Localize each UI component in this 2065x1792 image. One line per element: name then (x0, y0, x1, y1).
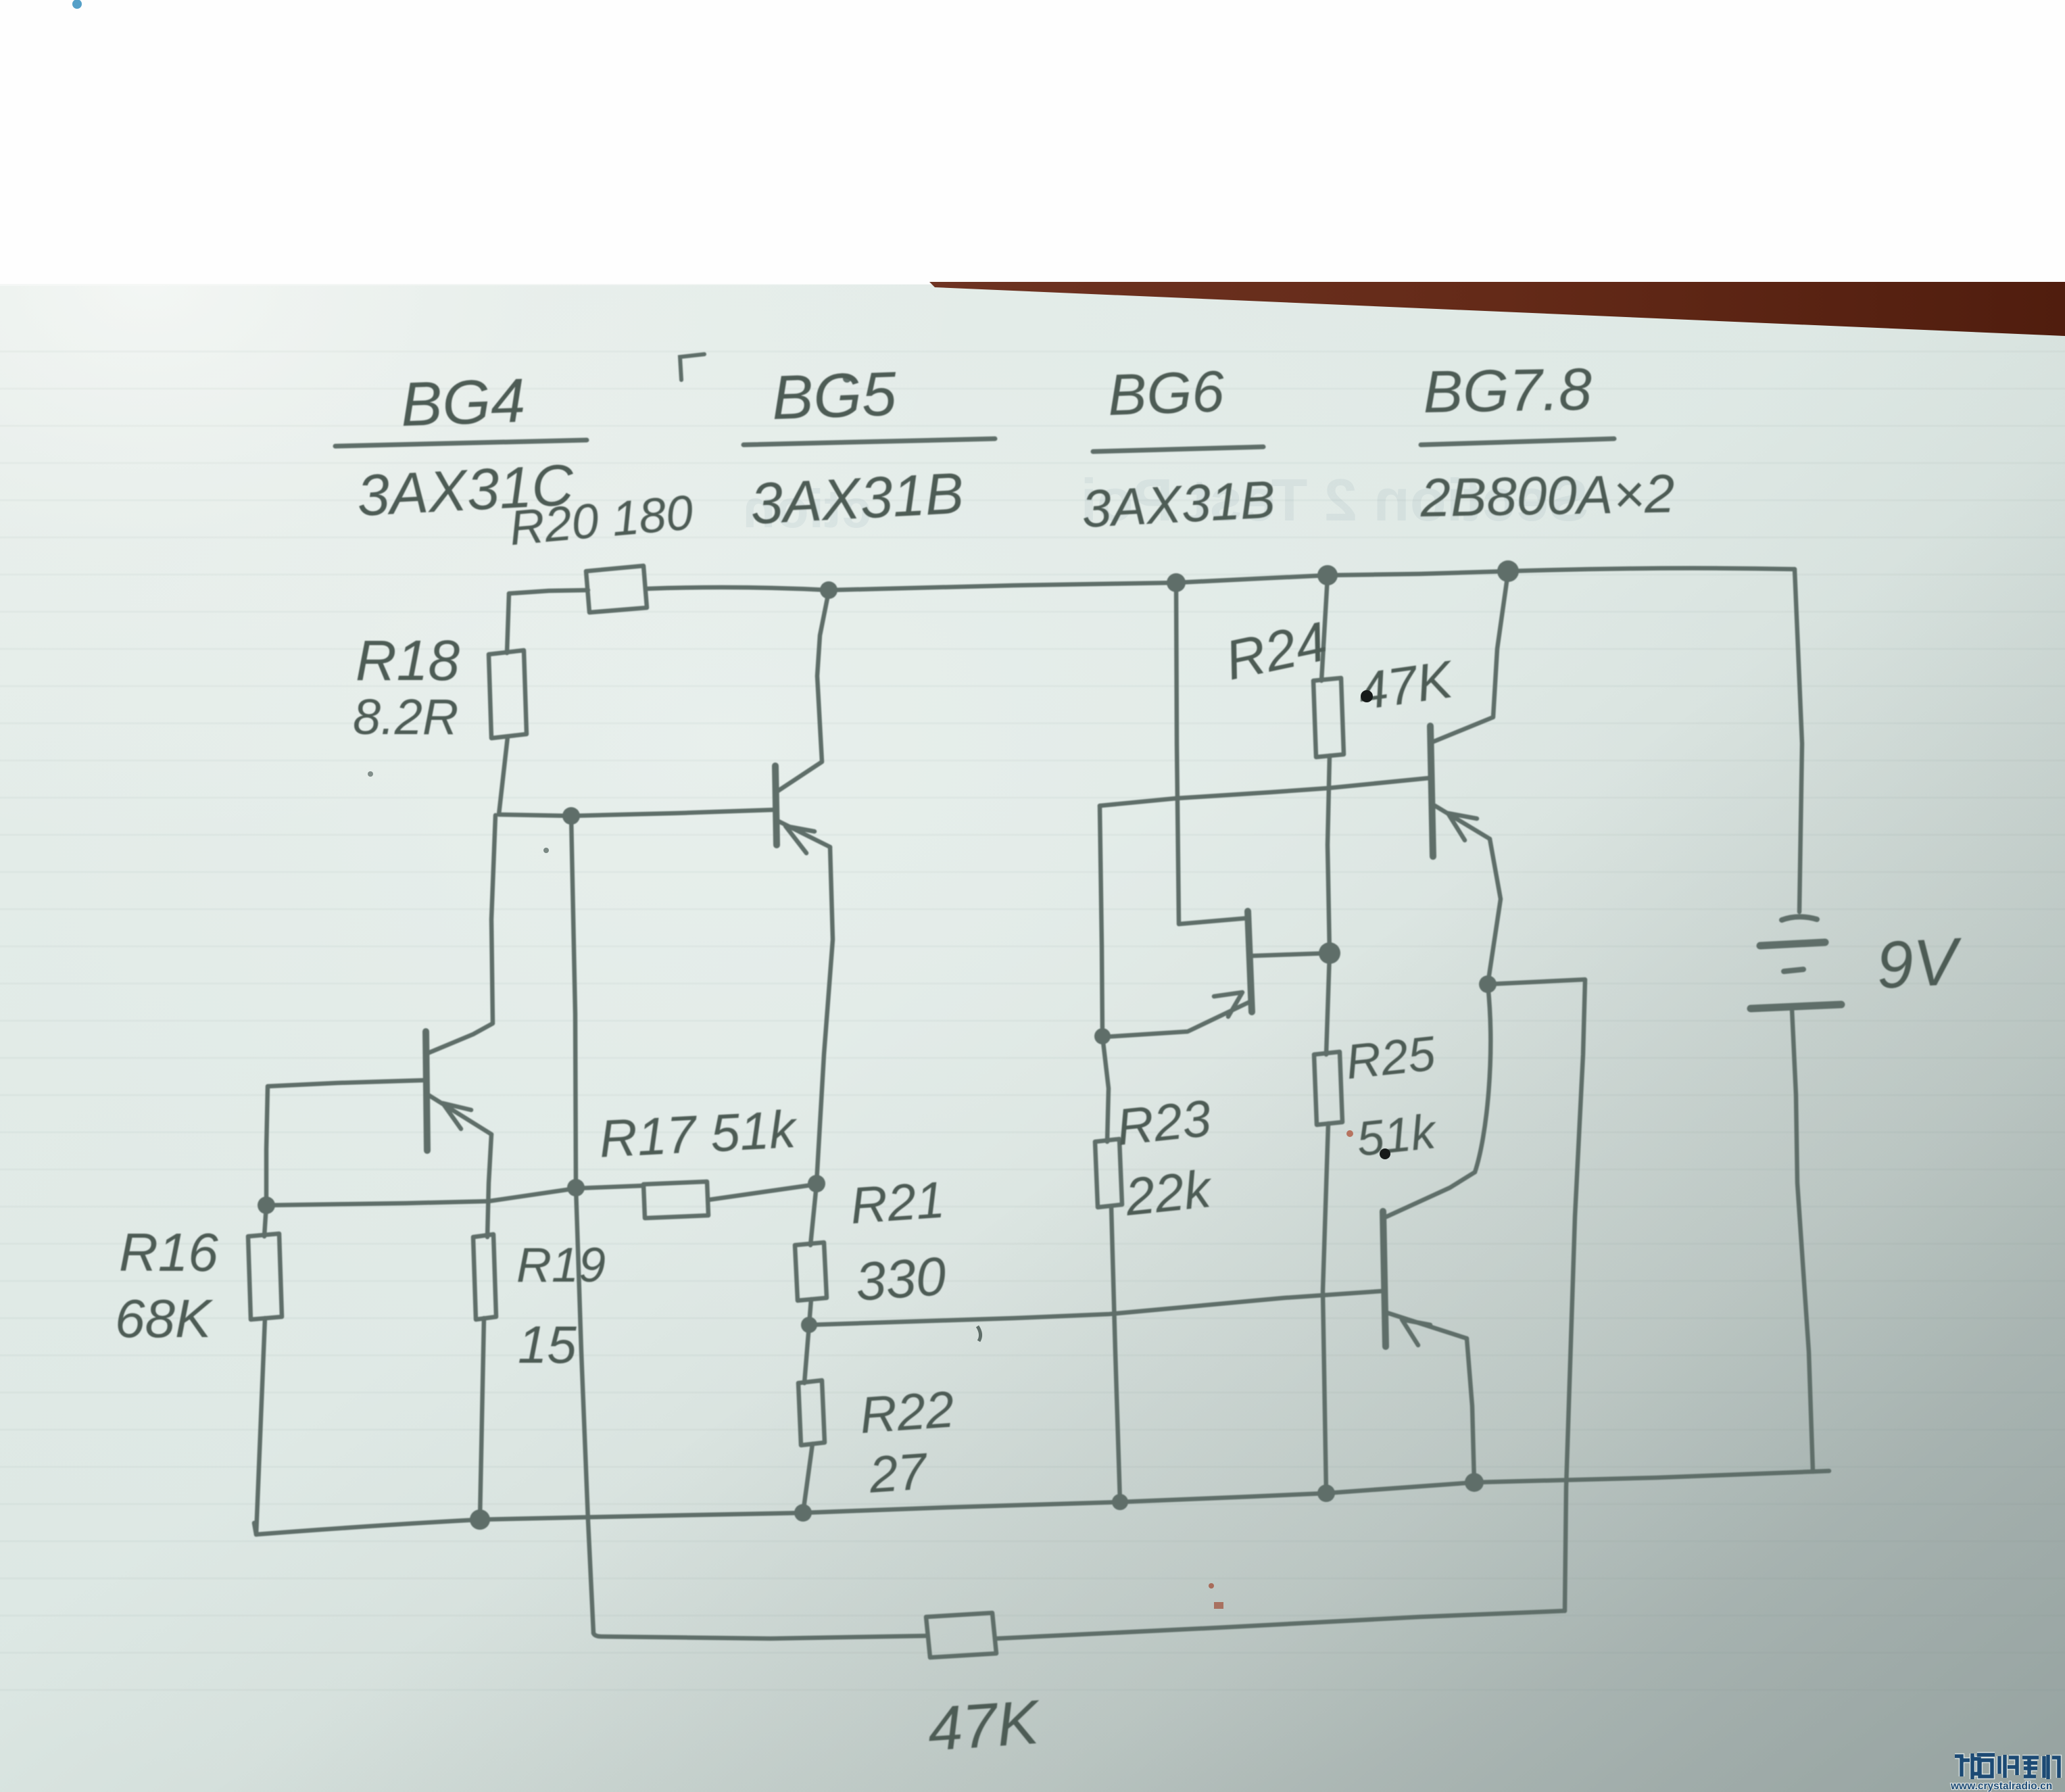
ghost show-through printed text (743, 466, 1588, 539)
wire feedback right riser (1565, 980, 1585, 1611)
svg-text:330: 330 (854, 1246, 948, 1312)
wire ground rail (256, 1471, 1829, 1534)
wire R24 top lead (1321, 577, 1328, 681)
svg-text:R16: R16 (119, 1222, 218, 1282)
svg-text:22k: 22k (1122, 1159, 1216, 1227)
svg-text:BG7.8: BG7.8 (1423, 356, 1593, 425)
wire R24 to junction (1328, 756, 1330, 953)
label BG7.8 fraction line (1421, 439, 1614, 445)
wire R16 lead (264, 1205, 266, 1236)
svg-text:BG5: BG5 (771, 360, 898, 433)
svg-text:51k: 51k (1354, 1105, 1440, 1167)
resistor 47K feedback (926, 1613, 996, 1657)
transistor BG5 (775, 591, 833, 1183)
node junction rail / R19 (470, 1509, 490, 1530)
svg-text:3AX31B: 3AX31B (749, 461, 965, 537)
svg-text:R21: R21 (848, 1171, 946, 1235)
label dot between BG4 and BG5 (843, 374, 851, 383)
resistor R21 (795, 1242, 827, 1301)
label BG6 fraction line (1093, 447, 1263, 452)
pencil speck (543, 848, 549, 853)
label BG4 fraction line (335, 440, 587, 446)
wire top rail left segment (509, 590, 588, 594)
wire feedback riser vertical (571, 816, 593, 1633)
red specks above feedback wire (1209, 1583, 1214, 1589)
svg-text:27: 27 (867, 1443, 930, 1504)
resistor R19 (473, 1234, 496, 1319)
resistor R17 (643, 1182, 708, 1218)
wire R20 to R18 (507, 594, 509, 653)
wire BG7 emitter to BG8 collector (1475, 984, 1490, 1172)
wire R25 top lead (1326, 953, 1330, 1055)
transistor BG6 (1104, 584, 1330, 1037)
svg-text:R25: R25 (1343, 1026, 1438, 1089)
svg-text:BG6: BG6 (1107, 359, 1225, 428)
svg-text:68K: 68K (115, 1288, 214, 1349)
pencil comma below BG8 base wire (977, 1326, 981, 1341)
svg-text:9V: 9V (1874, 923, 1964, 1002)
resistor R25 (1314, 1052, 1342, 1125)
resistor R22 (798, 1380, 825, 1445)
svg-text:15: 15 (518, 1315, 577, 1374)
resistor R18 (489, 650, 527, 738)
node junction rail / R22 (794, 1504, 812, 1522)
watermark logo glyph halo (1955, 1753, 2059, 1779)
wire BG7 base (1100, 778, 1429, 806)
resistor R24 (1313, 678, 1344, 757)
svg-text:8.2R: 8.2R (353, 689, 458, 745)
node junction node B / R16 / BG4 base (258, 1196, 275, 1214)
transistor BG7 (1430, 573, 1508, 984)
svg-text:R17 51k: R17 51k (598, 1099, 800, 1169)
svg-text:3AX31B: 3AX31B (1080, 469, 1276, 539)
wire battery top lead (1795, 569, 1802, 912)
label BG5 fraction line (744, 439, 995, 445)
wire feedback bottom right (996, 1611, 1565, 1639)
svg-text:R18: R18 (356, 629, 460, 692)
svg-text:2B800A×2: 2B800A×2 (1419, 463, 1675, 528)
node junction rail / R23 (1112, 1494, 1128, 1510)
blue speck top left (72, 0, 82, 9)
node junction base wire / feedback riser (562, 807, 580, 825)
node junction top rail / R24 (1317, 565, 1338, 585)
red speck left of 51K (1346, 1130, 1353, 1137)
node junction R17 / BG5 emitter (808, 1175, 825, 1192)
resistor R20 (586, 566, 647, 612)
node junction top rail / BG7 collector (1497, 560, 1519, 582)
wire R22 to ground rail (803, 1444, 812, 1513)
node junction rail / BG8 emitter (1465, 1473, 1484, 1492)
transistor BG4 (266, 815, 495, 1237)
wire R21 lead (810, 1184, 817, 1245)
transistor BG8 (1383, 1172, 1475, 1482)
node junction BG7 emitter (1479, 975, 1497, 993)
node junction top rail / BG5 collector (820, 581, 837, 599)
wire R17 to BG5 emitter (708, 1184, 817, 1200)
pencil speck left of BG5 base wire (368, 771, 373, 777)
svg-text:R23: R23 (1114, 1090, 1214, 1157)
wire BG8 base (809, 1291, 1382, 1325)
node junction top rail / BG6 collector (1167, 573, 1186, 592)
wire R21 to R22 (809, 1299, 811, 1325)
svg-text:47K: 47K (925, 1688, 1043, 1764)
wire vertical BG6 emitter net (1100, 806, 1109, 1142)
wire R22 lead (804, 1325, 809, 1383)
svg-text:R22: R22 (858, 1380, 956, 1445)
node junction BG6 emitter / R23 (1094, 1028, 1111, 1044)
svg-text:R19: R19 (516, 1238, 606, 1292)
wire BG7 emitter branch (1488, 979, 1585, 984)
black ink dot near 47K label (1361, 690, 1373, 702)
wire R19 to ground rail (480, 1318, 484, 1520)
resistor R23 (1095, 1139, 1122, 1207)
wire R16 to ground rail (254, 1318, 265, 1534)
wire node B horizontal (266, 1186, 643, 1205)
wire R18 to BG5 base (499, 737, 773, 816)
node junction riser / node B (567, 1179, 585, 1196)
wire battery bottom lead (1792, 1009, 1813, 1472)
overexposed top-left of paper (0, 0, 1, 1)
watermark logo glyphs (1955, 1753, 2059, 1779)
table edge (dark brown strip) (929, 282, 2065, 336)
node junction BG6 base / R24 / R25 (1319, 942, 1340, 964)
battery B1 9V (1751, 917, 1841, 1009)
node junction rail / R25 (1317, 1484, 1335, 1502)
wire R25 to ground rail (1323, 1123, 1328, 1493)
label mark tick above BG4 (680, 354, 704, 380)
faint ruled lines of paper (0, 352, 2065, 1690)
black ink dot below 51K label (1380, 1148, 1390, 1159)
node junction R22 / BG8 base (801, 1317, 817, 1333)
wire feedback bottom left (593, 1633, 926, 1639)
resistor R16 (248, 1234, 282, 1319)
wire top rail (646, 568, 1795, 590)
svg-text:BG4: BG4 (399, 366, 527, 439)
wire R23 to ground rail (1111, 1206, 1120, 1502)
svg-text:www.crystalradio.cn: www.crystalradio.cn (1950, 1781, 2052, 1792)
